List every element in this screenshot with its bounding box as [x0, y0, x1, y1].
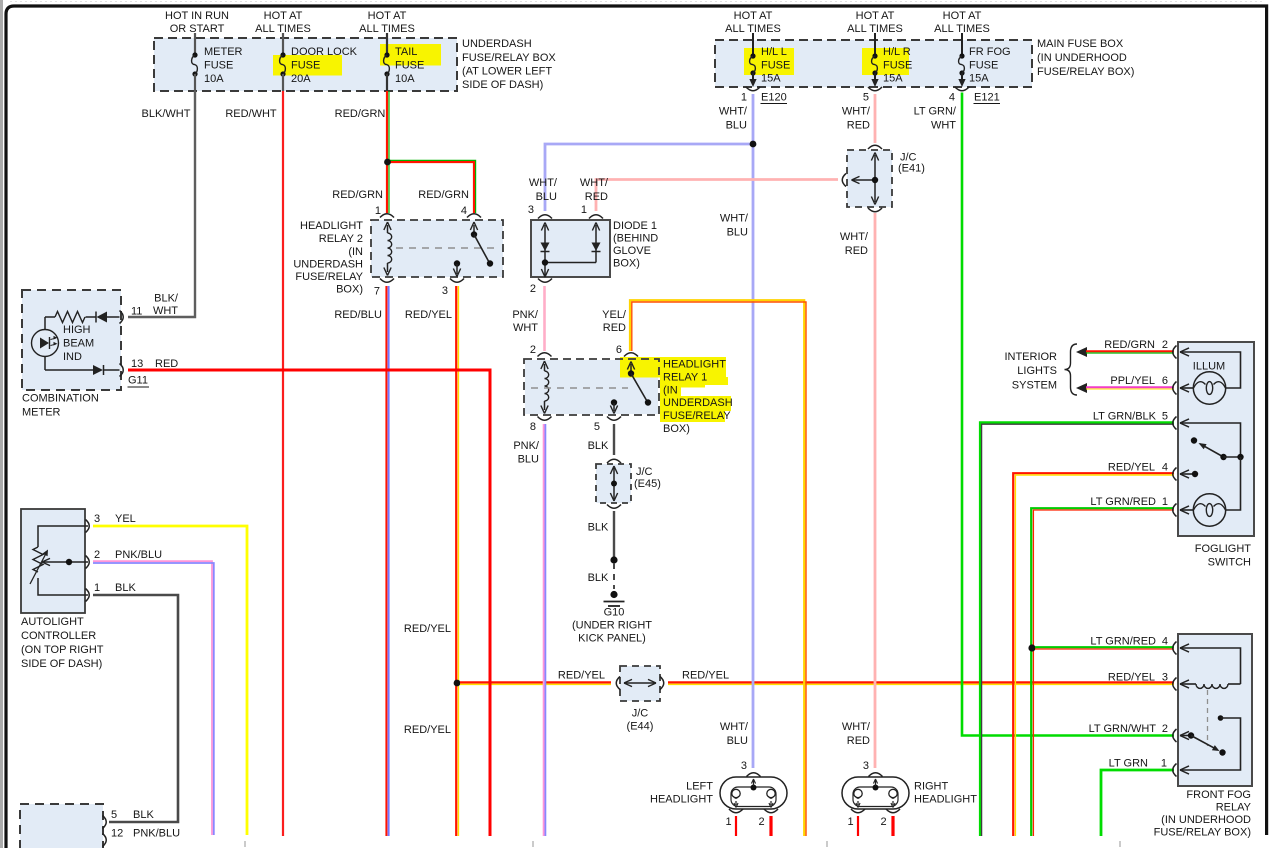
- svg-text:CONTROLLER: CONTROLLER: [21, 630, 96, 642]
- autolight pin 3: [86, 513, 136, 533]
- interior lights system label and brace: [1004, 344, 1077, 395]
- svg-text:2: 2: [94, 549, 100, 561]
- foglight switch: [1178, 342, 1254, 569]
- page tick marks at bottom edge: [245, 841, 1120, 847]
- svg-text:YEL/: YEL/: [602, 309, 627, 321]
- junction (BLK at ground lead): [610, 556, 617, 563]
- svg-text:3: 3: [741, 760, 747, 772]
- svg-text:6: 6: [1162, 375, 1168, 387]
- svg-text:(IN UNDERHOOD: (IN UNDERHOOD: [1161, 814, 1251, 826]
- wire RED/BLU (relay 2 pin 7 to bottom): [334, 286, 388, 836]
- front fog relay switch contacts: [1180, 715, 1241, 770]
- svg-text:HEADLIGHT: HEADLIGHT: [914, 794, 977, 806]
- svg-text:WHT/: WHT/: [840, 231, 869, 243]
- svg-text:2: 2: [758, 816, 764, 828]
- fuse DOOR LOCK FUSE 20A (highlighted): [273, 33, 358, 91]
- wire WHT/BLU (H/L L fuse E120-1 down to left headlight pin 3): [719, 94, 753, 768]
- relay HEADLIGHT RELAY 2 (in underdash fuse/relay box): [293, 220, 503, 296]
- wire RED (right headlight pin 1): [857, 816, 859, 836]
- fuse FR FOG FUSE 15A: [958, 33, 1010, 87]
- svg-text:RELAY: RELAY: [1216, 802, 1252, 814]
- svg-text:LT GRN: LT GRN: [1109, 758, 1148, 770]
- svg-text:FOGLIGHT: FOGLIGHT: [1195, 543, 1252, 555]
- label HOT AT ALL TIMES (door lock fuse): [255, 10, 311, 35]
- svg-text:RED: RED: [603, 322, 626, 334]
- label HOT AT ALL TIMES (tail fuse): [359, 10, 415, 35]
- left headlight high beam bulb: [767, 789, 775, 807]
- svg-text:PPL/YEL: PPL/YEL: [1110, 375, 1155, 387]
- svg-text:TAIL: TAIL: [395, 46, 417, 58]
- foglight switch illumination bulb (lower): [1180, 457, 1241, 526]
- svg-text:(E45): (E45): [634, 478, 661, 490]
- svg-text:WHT: WHT: [153, 305, 178, 317]
- svg-text:BLU: BLU: [727, 735, 748, 747]
- junction (LT GRN/RED branch to front fog relay pin 4): [1028, 644, 1035, 651]
- svg-text:J/C: J/C: [636, 466, 653, 478]
- wire RED (combination meter pin 13, long run right then down): [128, 370, 490, 836]
- wire PPL/YEL (foglight switch pin 6 to interior lights system): [1076, 375, 1174, 393]
- svg-text:GLOVE: GLOVE: [613, 245, 651, 257]
- svg-text:SIDE OF DASH): SIDE OF DASH): [21, 658, 102, 670]
- svg-text:20A: 20A: [291, 73, 311, 85]
- svg-text:RED/YEL: RED/YEL: [558, 670, 605, 682]
- svg-text:J/C: J/C: [632, 708, 649, 720]
- diode 1 left diode element: [541, 223, 550, 278]
- svg-text:(AT LOWER LEFT: (AT LOWER LEFT: [462, 66, 552, 78]
- svg-text:SWITCH: SWITCH: [1208, 557, 1251, 569]
- svg-text:OR START: OR START: [170, 23, 225, 35]
- relay FRONT FOG RELAY (in underhood fuse/relay box): [1154, 634, 1252, 839]
- svg-text:MAIN FUSE BOX: MAIN FUSE BOX: [1037, 38, 1124, 50]
- left headlight pin 3 connector: [741, 760, 761, 791]
- svg-text:RIGHT: RIGHT: [914, 781, 949, 793]
- relay 2 switch contacts: [453, 222, 493, 277]
- autolight controller potentiometer: [30, 526, 88, 595]
- svg-text:WHT/: WHT/: [720, 721, 749, 733]
- svg-text:METER: METER: [22, 407, 61, 419]
- fuse METER FUSE 10A: [192, 33, 243, 91]
- svg-text:5: 5: [111, 809, 117, 821]
- svg-text:1: 1: [725, 816, 731, 828]
- svg-text:11: 11: [131, 306, 142, 318]
- svg-text:SIDE OF DASH): SIDE OF DASH): [462, 79, 543, 91]
- svg-text:3: 3: [1162, 672, 1168, 684]
- svg-text:RED: RED: [585, 191, 608, 203]
- svg-text:DOOR LOCK: DOOR LOCK: [291, 46, 358, 58]
- svg-text:RED/YEL: RED/YEL: [1108, 672, 1155, 684]
- combination meter (HIGH BEAM IND): [22, 290, 121, 419]
- svg-text:WHT: WHT: [513, 322, 538, 334]
- fuse H/L R FUSE 15A (highlighted): [862, 33, 912, 87]
- svg-text:LT GRN/: LT GRN/: [914, 106, 957, 118]
- svg-text:2: 2: [880, 816, 886, 828]
- wire YEL/RED (headlight relay 1 pin 6 up/right/down to bottom): [602, 300, 806, 836]
- svg-text:1: 1: [375, 205, 381, 217]
- relay 1 switch contacts: [610, 362, 651, 414]
- relay 1 pin 5 connector: [594, 417, 621, 434]
- svg-text:6: 6: [616, 344, 622, 356]
- diode D1 (DIODE 1, behind glove box): [531, 220, 658, 277]
- high beam indicator lamp (LED): [32, 330, 59, 357]
- svg-text:BLK: BLK: [115, 582, 136, 594]
- relay 2 pin 1 connector: [375, 205, 394, 218]
- foglight switch pin 2: [1173, 346, 1189, 359]
- left headlight pin 2 connector: [758, 809, 778, 828]
- wire RED/GRN (tail fuse to headlight relay 2 pins 1 and 4): [332, 91, 475, 213]
- svg-text:BLK: BLK: [588, 440, 609, 452]
- wire PNK/BLU (relay 1 pin 8 to bottom): [513, 424, 545, 836]
- svg-text:LIGHTS: LIGHTS: [1017, 365, 1057, 377]
- junction (WHT/BLU branch to diode 1): [750, 141, 757, 148]
- svg-text:WHT/: WHT/: [529, 177, 558, 189]
- svg-text:UNDERDASH: UNDERDASH: [462, 38, 532, 50]
- diode 1 right diode element: [542, 223, 601, 266]
- svg-text:1: 1: [847, 816, 853, 828]
- svg-text:BLU: BLU: [536, 191, 557, 203]
- svg-text:HIGH: HIGH: [63, 324, 91, 336]
- front fog relay pin 1: [1173, 764, 1189, 777]
- front fog relay pin 2: [1173, 729, 1189, 742]
- svg-text:2: 2: [1162, 339, 1168, 351]
- svg-text:RED: RED: [847, 735, 870, 747]
- wire BLK (relay 1 pin 5 to J/C E45): [588, 424, 614, 455]
- svg-text:FUSE: FUSE: [204, 60, 233, 72]
- relay 2 pin 7 connector: [374, 279, 394, 298]
- front fog relay coil: [1180, 648, 1241, 688]
- wire BLK/WHT (meter fuse to combination meter pin 11): [128, 91, 195, 317]
- wire LT GRN (front fog relay pin 1 down to bottom): [1101, 758, 1174, 837]
- svg-text:WHT: WHT: [931, 120, 956, 132]
- fuse TAIL FUSE 10A (highlighted): [380, 33, 441, 91]
- diode 1 pin 3 connector: [528, 204, 552, 219]
- svg-text:2: 2: [530, 283, 536, 295]
- svg-text:BOX): BOX): [613, 258, 640, 270]
- svg-text:LT GRN/WHT: LT GRN/WHT: [1089, 723, 1157, 735]
- wire RED (left headlight pin 1): [735, 816, 737, 836]
- right headlight: [842, 777, 977, 809]
- svg-text:15A: 15A: [883, 73, 903, 85]
- svg-text:RED/GRN: RED/GRN: [1104, 339, 1155, 351]
- foglight switch pin 6: [1173, 382, 1189, 395]
- svg-text:5: 5: [1162, 411, 1168, 423]
- label LT GRN/WHT at front fog relay pin 2: [1089, 723, 1168, 735]
- svg-text:RED/YEL: RED/YEL: [404, 623, 451, 635]
- svg-text:YEL: YEL: [115, 513, 136, 525]
- svg-text:FR FOG: FR FOG: [969, 46, 1011, 58]
- svg-text:WHT/: WHT/: [842, 721, 871, 733]
- svg-text:4: 4: [949, 92, 955, 104]
- foglight switch pin 5: [1173, 417, 1189, 430]
- svg-text:BOX): BOX): [336, 284, 363, 296]
- svg-text:(UNDER RIGHT: (UNDER RIGHT: [572, 620, 652, 632]
- label HOT IN RUN OR START: [165, 10, 229, 35]
- relay 2 pin 4 connector: [461, 205, 481, 218]
- svg-text:3: 3: [528, 204, 534, 216]
- svg-text:COMBINATION: COMBINATION: [22, 393, 99, 405]
- connector E120 pin 1: [741, 87, 787, 104]
- wire RED/YEL (junction to J/C E44): [460, 670, 611, 685]
- svg-text:(E41): (E41): [898, 163, 925, 175]
- svg-text:G10: G10: [604, 607, 625, 619]
- svg-text:FUSE/RELAY BOX): FUSE/RELAY BOX): [1154, 827, 1251, 839]
- svg-text:3: 3: [94, 513, 100, 525]
- svg-text:(IN UNDERHOOD: (IN UNDERHOOD: [1037, 52, 1127, 64]
- svg-text:RELAY 2: RELAY 2: [319, 233, 363, 245]
- svg-text:KICK PANEL): KICK PANEL): [578, 633, 646, 645]
- svg-text:FUSE/RELAY BOX): FUSE/RELAY BOX): [1037, 66, 1134, 78]
- relay 1 pin 8 connector: [530, 417, 552, 434]
- right headlight pin 1 connector: [847, 809, 865, 828]
- wire LT GRN/BLK (foglight switch pin 5 down to bottom): [980, 411, 1174, 837]
- svg-text:8: 8: [530, 421, 536, 433]
- diode 1 pin 1 connector: [581, 204, 603, 219]
- svg-text:(E44): (E44): [627, 721, 654, 733]
- svg-text:H/L R: H/L R: [883, 46, 911, 58]
- svg-text:WHT/: WHT/: [720, 213, 749, 225]
- svg-text:E120: E120: [761, 92, 787, 104]
- relay HEADLIGHT RELAY 1 box fill: [525, 360, 658, 414]
- label HOT AT ALL TIMES (hlr fuse): [847, 10, 903, 35]
- svg-text:15A: 15A: [969, 73, 989, 85]
- connector pin 5 (BLK): [103, 809, 155, 829]
- fuse H/L L FUSE 15A (highlighted): [744, 33, 794, 87]
- relay 1 divider (dashed): [531, 387, 628, 389]
- svg-text:5: 5: [594, 421, 600, 433]
- wire BLK (J/C E45 to ground G10): [588, 511, 614, 560]
- svg-text:PNK/: PNK/: [512, 309, 539, 321]
- svg-text:RELAY 1: RELAY 1: [663, 372, 707, 384]
- svg-text:1: 1: [1161, 758, 1167, 770]
- front fog relay divider (dashed): [1207, 690, 1209, 746]
- combination meter pin 13 / ground G11: [120, 358, 179, 387]
- svg-text:LT GRN/BLK: LT GRN/BLK: [1093, 411, 1157, 423]
- wire LT GRN/RED (branch to front fog relay pin 4): [1035, 636, 1174, 650]
- svg-text:RED/YEL: RED/YEL: [1108, 462, 1155, 474]
- svg-text:4: 4: [461, 205, 467, 217]
- svg-text:SYSTEM: SYSTEM: [1012, 380, 1057, 392]
- svg-text:HOT AT: HOT AT: [734, 10, 773, 22]
- label HOT AT ALL TIMES (frfog fuse): [934, 10, 990, 35]
- foglight switch pin 1: [1173, 504, 1189, 517]
- front fog relay pin 3: [1173, 678, 1189, 691]
- svg-text:RED: RED: [155, 358, 178, 370]
- svg-text:FUSE: FUSE: [969, 60, 998, 72]
- svg-text:LT GRN/RED: LT GRN/RED: [1090, 636, 1156, 648]
- wire RED/GRN (foglight switch pin 2 to interior lights system): [1076, 339, 1174, 357]
- wire RED/YEL (J/C E44 to front fog relay pin 3): [668, 670, 1174, 685]
- connector pin 5: [863, 87, 882, 104]
- right headlight pin 2 connector: [880, 809, 900, 828]
- svg-text:10A: 10A: [204, 73, 224, 85]
- diode 1 pin 2 connector: [530, 279, 552, 296]
- svg-text:(ON TOP RIGHT: (ON TOP RIGHT: [21, 644, 104, 656]
- junction (RED/GRN branch): [384, 159, 391, 166]
- svg-text:UNDERDASH: UNDERDASH: [663, 397, 733, 409]
- foglight switch ILLUM bulb: [1180, 352, 1241, 404]
- svg-text:2: 2: [1162, 723, 1168, 735]
- svg-text:G11: G11: [128, 375, 148, 387]
- wire PNK/WHT (diode 1 pin 2 to headlight relay 1 pin 2): [512, 286, 544, 351]
- ground G10 (under right kick panel): [572, 591, 652, 645]
- foglight switch pin 4: [1173, 468, 1189, 481]
- svg-text:HOT AT: HOT AT: [368, 10, 407, 22]
- wire LT GRN/WHT (FR FOG fuse E121-4 to front fog relay pin 2): [914, 93, 1174, 736]
- svg-text:HEADLIGHT: HEADLIGHT: [663, 359, 726, 371]
- relay 1 coil: [541, 361, 549, 414]
- svg-text:HEADLIGHT: HEADLIGHT: [300, 220, 363, 232]
- svg-text:3: 3: [863, 760, 869, 772]
- svg-text:RED/YEL: RED/YEL: [682, 670, 729, 682]
- left headlight pin 1 connector: [725, 809, 743, 828]
- svg-text:5: 5: [863, 92, 869, 104]
- svg-text:10A: 10A: [395, 73, 415, 85]
- wire YEL (autolight pin 3 down to bottom): [93, 526, 247, 835]
- wire LT GRN/RED (foglight switch pin 1 down, branch to fog relay pin 4): [1031, 496, 1174, 836]
- right headlight high beam bulb: [889, 789, 897, 807]
- svg-text:INTERIOR: INTERIOR: [1004, 351, 1057, 363]
- svg-text:BLK: BLK: [588, 572, 609, 584]
- svg-text:4: 4: [1162, 636, 1168, 648]
- wire WHT/RED (diode 1 pin 1 to J/C E41 left pin): [580, 177, 838, 211]
- svg-text:1: 1: [1162, 496, 1168, 508]
- svg-text:BLK/: BLK/: [154, 293, 179, 305]
- junction connector J/C (E44): [616, 666, 664, 733]
- wire RED (right headlight pin 2): [891, 816, 894, 836]
- svg-text:BEAM: BEAM: [63, 338, 94, 350]
- svg-text:PNK/: PNK/: [513, 440, 540, 452]
- wire WHT/RED (H/L R fuse pin 5 down through J/C E41 to right headlight pin 3): [840, 94, 875, 768]
- svg-text:UNDERDASH: UNDERDASH: [293, 259, 363, 271]
- svg-text:FUSE/RELAY: FUSE/RELAY: [295, 271, 363, 283]
- svg-text:HEADLIGHT: HEADLIGHT: [650, 794, 713, 806]
- svg-text:PNK/BLU: PNK/BLU: [133, 828, 180, 840]
- svg-text:FUSE: FUSE: [883, 60, 912, 72]
- svg-text:1: 1: [581, 204, 587, 216]
- svg-text:METER: METER: [204, 46, 243, 58]
- junction (RED/YEL branch to J/C E44): [454, 680, 461, 687]
- underdash fuse/relay box: [154, 38, 556, 91]
- svg-text:H/L L: H/L L: [761, 46, 787, 58]
- svg-text:RED/GRN: RED/GRN: [418, 189, 469, 201]
- svg-text:7: 7: [374, 286, 380, 298]
- svg-text:2: 2: [530, 344, 536, 356]
- svg-text:WHT/: WHT/: [842, 106, 871, 118]
- wire RED/YEL (foglight switch pin 4 down to bottom): [1013, 462, 1174, 837]
- svg-text:BLK: BLK: [133, 809, 154, 821]
- svg-text:RED/GRN: RED/GRN: [335, 108, 386, 120]
- junction connector J/C (E41): [842, 145, 925, 212]
- svg-text:RED: RED: [847, 120, 870, 132]
- relay 1 pin 6 connector: [616, 344, 638, 357]
- wire RED (left headlight pin 2): [769, 816, 772, 836]
- svg-text:WHT/: WHT/: [719, 106, 748, 118]
- relay 1 pin 2 connector: [530, 344, 552, 357]
- main fuse box (in underhood fuse/relay box): [715, 38, 1134, 87]
- svg-text:FUSE/RELAY BOX: FUSE/RELAY BOX: [462, 52, 556, 64]
- svg-text:FUSE: FUSE: [761, 60, 790, 72]
- svg-text:RED/GRN: RED/GRN: [332, 189, 383, 201]
- svg-text:(BEHIND: (BEHIND: [613, 233, 658, 245]
- autolight pin 1: [86, 582, 137, 602]
- label RED/YEL at front fog relay pin 3: [1108, 672, 1168, 684]
- svg-text:DIODE 1: DIODE 1: [613, 220, 657, 232]
- connector E121 pin 4: [949, 87, 1000, 104]
- svg-text:BLU: BLU: [726, 120, 747, 132]
- svg-text:RED: RED: [845, 245, 868, 257]
- relay 2 coil: [384, 222, 392, 276]
- svg-text:BLU: BLU: [727, 227, 748, 239]
- wire WHT/BLU (branch to diode 1 pin 3): [529, 144, 753, 211]
- front fog relay pin 4: [1173, 642, 1189, 655]
- left headlight: [650, 777, 787, 809]
- svg-text:FRONT FOG: FRONT FOG: [1186, 789, 1251, 801]
- svg-text:LEFT: LEFT: [686, 781, 713, 793]
- right headlight low beam bulb: [854, 789, 862, 807]
- wire RED/WHT (door lock fuse, runs to bottom): [225, 91, 283, 836]
- label HOT AT ALL TIMES (hll fuse): [725, 10, 781, 35]
- svg-text:HOT IN RUN: HOT IN RUN: [165, 10, 229, 22]
- svg-text:FUSE: FUSE: [395, 60, 424, 72]
- svg-text:1: 1: [741, 92, 747, 104]
- wire RED/YEL (relay 2 pin 3 down the page): [404, 286, 458, 836]
- svg-text:13: 13: [131, 358, 143, 370]
- svg-text:HOT AT: HOT AT: [264, 10, 303, 22]
- svg-text:BLK/WHT: BLK/WHT: [142, 108, 191, 120]
- svg-text:4: 4: [1162, 462, 1168, 474]
- svg-text:BOX): BOX): [663, 423, 690, 435]
- svg-text:HOT AT: HOT AT: [943, 10, 982, 22]
- connector pin 12 (PNK/BLU): [103, 828, 181, 847]
- svg-text:3: 3: [442, 285, 448, 297]
- svg-text:FUSE/RELAY: FUSE/RELAY: [663, 410, 731, 422]
- svg-text:PNK/BLU: PNK/BLU: [115, 549, 162, 561]
- svg-text:1: 1: [94, 582, 100, 594]
- svg-text:BLU: BLU: [518, 454, 539, 466]
- right headlight pin 3 connector: [863, 760, 883, 791]
- svg-text:BLK: BLK: [588, 522, 609, 534]
- svg-text:IND: IND: [63, 351, 82, 363]
- svg-text:RED/BLU: RED/BLU: [334, 309, 382, 321]
- relay 2 divider (dashed): [396, 247, 499, 249]
- svg-text:E121: E121: [974, 92, 1000, 104]
- autolight controller (on top right side of dash): [21, 509, 104, 670]
- wire PNK/BLU (autolight pin 2 down to connector pin 12): [93, 561, 214, 835]
- autolight pin 2: [86, 549, 163, 569]
- svg-text:HOT AT: HOT AT: [856, 10, 895, 22]
- svg-text:RED/YEL: RED/YEL: [405, 309, 452, 321]
- svg-text:12: 12: [111, 828, 123, 840]
- diode (to pin 11, pointing left): [86, 312, 120, 323]
- svg-text:RED/WHT: RED/WHT: [225, 108, 277, 120]
- relay HEADLIGHT RELAY 1 (in underdash fuse/relay box): [524, 359, 733, 436]
- relay 2 pin 3 connector: [442, 279, 464, 298]
- svg-text:AUTOLIGHT: AUTOLIGHT: [21, 616, 84, 628]
- svg-text:(IN: (IN: [348, 246, 363, 258]
- highlight (yellow marker on HEADLIGHT RELAY 1): [620, 357, 731, 422]
- svg-text:FUSE: FUSE: [291, 60, 320, 72]
- wire BLK (autolight pin 1 to lower connector pin 5): [93, 595, 178, 822]
- svg-text:15A: 15A: [761, 73, 781, 85]
- diode (to pin 13, pointing right): [45, 357, 120, 376]
- svg-text:(IN: (IN: [663, 385, 678, 397]
- svg-text:LT GRN/RED: LT GRN/RED: [1090, 496, 1156, 508]
- wire BLK (dashed, to ground G10): [588, 563, 614, 589]
- svg-text:RED/YEL: RED/YEL: [404, 724, 451, 736]
- foglight switch contacts: [1180, 423, 1244, 477]
- combination meter pin 11: [120, 293, 179, 324]
- connector (bottom left, cut off at page edge): [20, 804, 103, 853]
- svg-text:ILLUM: ILLUM: [1193, 361, 1225, 373]
